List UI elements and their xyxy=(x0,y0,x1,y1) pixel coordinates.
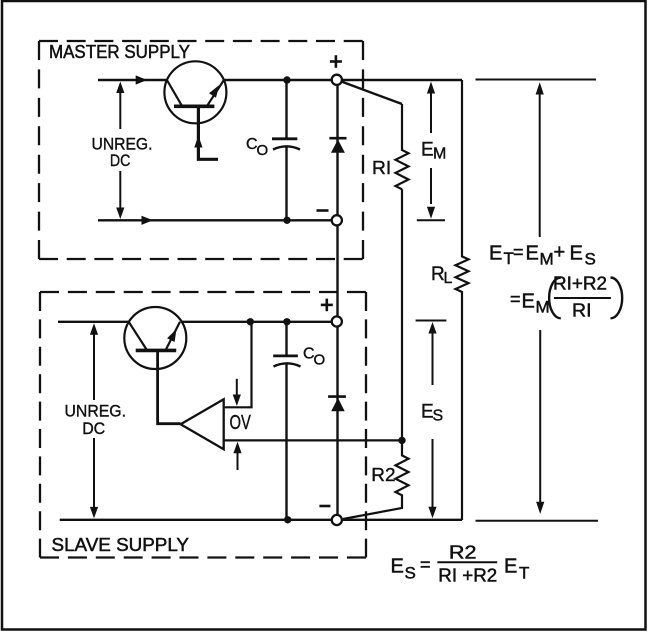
bottom equation: ES = R2/(R1+R2) ET xyxy=(391,542,530,586)
svg-text:M: M xyxy=(536,298,550,317)
wire diagonal + to R1 xyxy=(342,82,402,104)
svg-text:+: + xyxy=(554,242,566,264)
minus sign slave xyxy=(319,505,330,508)
svg-text:E: E xyxy=(391,556,404,578)
resistor RL xyxy=(456,80,469,520)
transistor Q1 base lead xyxy=(198,106,218,159)
svg-text:M: M xyxy=(433,146,446,163)
capacitor CO slave lead bottom xyxy=(285,364,287,520)
svg-text:T: T xyxy=(519,564,529,583)
terminal circle slave + xyxy=(332,316,342,326)
transistor Q1 collector arrow xyxy=(209,85,219,98)
svg-text:S: S xyxy=(405,564,416,583)
master supply dashed box xyxy=(39,41,363,259)
unreg dc measure arrow slave xyxy=(90,323,98,518)
svg-text:UNREG.: UNREG. xyxy=(65,402,127,421)
terminal circle master - xyxy=(332,215,342,225)
svg-text:E: E xyxy=(504,556,517,578)
ET up arrow xyxy=(536,82,544,237)
ET bottom reference line xyxy=(476,520,599,522)
svg-text:R2: R2 xyxy=(449,542,477,563)
equation line 2: = EM (RI+R2 / RI) xyxy=(510,273,607,321)
EM measure arrow xyxy=(427,82,435,219)
ES top tick xyxy=(416,320,447,322)
capacitor CO slave curved plate xyxy=(274,363,301,366)
junction dot master bottom xyxy=(283,217,290,224)
capacitor CO master lead top xyxy=(285,80,287,139)
junction dot slave bottom xyxy=(284,516,291,523)
diode D1 bar xyxy=(329,137,346,140)
junction dot slave top a xyxy=(247,318,254,325)
wire R1 to junction xyxy=(401,189,403,440)
capacitor CO slave lead top xyxy=(285,322,287,356)
svg-text:M: M xyxy=(540,250,554,269)
resistor R1 xyxy=(396,104,409,189)
transistor Q2 emitter xyxy=(129,322,147,351)
op-amp U1 down arrow xyxy=(233,379,241,406)
diode D2 triangle xyxy=(331,398,345,411)
transistor Q1 circle xyxy=(164,61,226,123)
transistor Q2 collector arrow xyxy=(167,329,176,342)
plus sign slave xyxy=(321,299,333,312)
wire slave bottom to RL xyxy=(341,519,462,521)
junction dot slave top b xyxy=(283,318,290,325)
equation line 2 left paren xyxy=(549,278,561,319)
wire top to RL xyxy=(341,79,462,81)
svg-text:L: L xyxy=(444,270,453,287)
wire master top xyxy=(98,79,331,81)
terminal circle master + xyxy=(332,75,342,85)
svg-text:S: S xyxy=(585,250,596,269)
capacitor CO slave top plate xyxy=(273,354,298,357)
transistor Q1 base lead arrow xyxy=(194,136,202,148)
op-amp U1 triangle xyxy=(181,399,224,449)
ET top reference line xyxy=(476,79,597,81)
svg-text:E: E xyxy=(489,243,502,265)
wire arrow master top xyxy=(136,75,147,84)
transistor Q1 emitter xyxy=(167,80,182,106)
minus sign master xyxy=(317,209,329,212)
ES measure arrow xyxy=(428,322,436,518)
svg-text:RI: RI xyxy=(572,300,592,321)
equation line 2 right paren xyxy=(611,278,623,319)
resistor R2 xyxy=(343,440,409,519)
capacitor CO master top plate xyxy=(272,137,297,140)
svg-text:E: E xyxy=(570,243,583,265)
svg-text:=: = xyxy=(510,289,521,309)
diode D2 bar xyxy=(328,395,346,398)
svg-text:SLAVE SUPPLY: SLAVE SUPPLY xyxy=(52,534,190,555)
svg-text:R2: R2 xyxy=(371,464,395,485)
capacitor CO master curved plate xyxy=(273,146,300,149)
svg-text:MASTER SUPPLY: MASTER SUPPLY xyxy=(49,41,190,62)
svg-text:=: = xyxy=(420,555,431,575)
capacitor CO master lead bottom xyxy=(285,147,287,221)
svg-text:O: O xyxy=(257,142,269,159)
ET down arrow xyxy=(536,330,544,514)
bottom equation fraction bar xyxy=(437,561,497,563)
svg-text:RI: RI xyxy=(372,157,391,178)
op-amp U1 up arrow xyxy=(233,442,241,470)
unreg dc measure arrow master xyxy=(116,82,124,220)
junction dot R chain xyxy=(398,437,405,444)
transistor Q2 base lead xyxy=(158,350,181,423)
equation line 1: ET = EM + ES xyxy=(489,242,596,269)
wire slave top xyxy=(58,321,331,323)
transistor Q2 collector xyxy=(166,322,181,351)
plus sign master xyxy=(330,55,342,68)
EM bottom tick xyxy=(417,219,445,221)
svg-text:E: E xyxy=(421,140,434,161)
wire slave bottom xyxy=(60,519,332,521)
svg-text:O: O xyxy=(314,351,326,368)
diode D1 triangle xyxy=(331,140,345,153)
slave supply dashed box xyxy=(40,292,366,558)
wire master bottom xyxy=(98,219,332,221)
terminal circle slave - xyxy=(332,515,342,525)
svg-text:E: E xyxy=(526,243,539,265)
svg-text:RI +R2: RI +R2 xyxy=(438,565,497,586)
svg-text:E: E xyxy=(522,291,535,313)
svg-text:S: S xyxy=(433,408,444,425)
bus wire (master + to slave -) xyxy=(336,80,338,520)
svg-text:=: = xyxy=(513,242,524,262)
svg-text:OV: OV xyxy=(230,412,252,434)
svg-text:RI+R2: RI+R2 xyxy=(553,273,607,294)
transistor Q1 collector xyxy=(207,80,224,106)
op-amp U1 output wire to junction xyxy=(224,439,402,441)
transistor Q1 base bar xyxy=(174,105,214,109)
junction dot master top xyxy=(283,76,290,83)
transistor Q2 circle xyxy=(124,307,186,369)
wire arrow master bottom xyxy=(142,216,154,225)
svg-text:DC: DC xyxy=(110,151,130,170)
op-amp U1 input wire from junction xyxy=(225,322,252,408)
equation line 2 fraction bar xyxy=(554,297,611,299)
transistor Q2 base bar xyxy=(136,349,177,353)
svg-text:DC: DC xyxy=(82,419,105,438)
